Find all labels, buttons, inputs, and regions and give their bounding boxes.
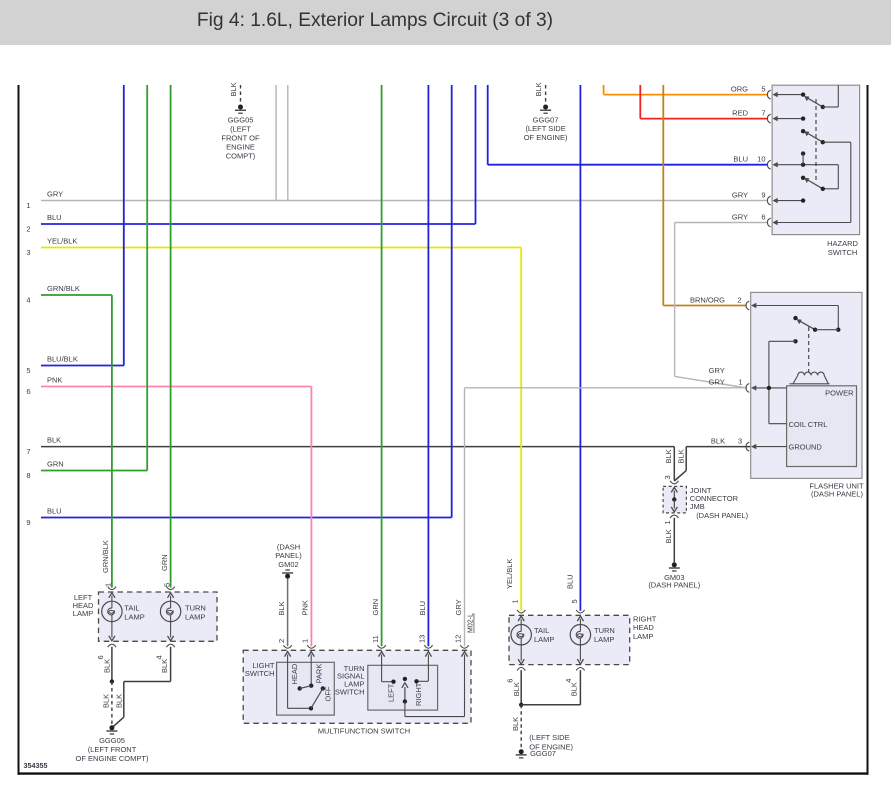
svg-text:3: 3 (738, 437, 742, 446)
svg-text:BLK: BLK (277, 601, 286, 615)
multifunction pin 2 (283, 645, 291, 648)
multifunction pin 13 (424, 645, 432, 648)
svg-text:BLU: BLU (418, 601, 427, 616)
svg-text:PANEL): PANEL) (275, 551, 302, 560)
wire 4 GRN/BLK (41, 294, 112, 296)
svg-text:YEL/BLK: YEL/BLK (505, 559, 514, 589)
svg-text:(LEFT: (LEFT (230, 124, 251, 133)
svg-text:(LEFT SIDE: (LEFT SIDE (525, 124, 565, 133)
wire BLK dashed to GGG07 (520, 705, 522, 749)
light switch arm (300, 686, 312, 689)
svg-text:GRN: GRN (371, 599, 380, 616)
svg-text:GM02: GM02 (278, 560, 298, 569)
svg-text:(DASH PANEL): (DASH PANEL) (648, 581, 700, 590)
svg-text:BLU: BLU (566, 574, 575, 589)
hazard switch arm S2 (801, 129, 805, 133)
svg-text:HAZARD: HAZARD (827, 239, 858, 248)
svg-text:BLU: BLU (47, 213, 62, 222)
svg-text:BLU: BLU (47, 507, 62, 516)
svg-text:9: 9 (26, 518, 30, 527)
svg-text:SWITCH: SWITCH (335, 688, 365, 697)
svg-text:2: 2 (737, 296, 741, 305)
svg-text:RED: RED (732, 109, 748, 118)
wire 3 YEL/BLK vertical to right head lamp tail pin 1 (520, 248, 522, 611)
wire 5 BLU/BLK vertical (123, 85, 125, 366)
wire GRN vertical to left head lamp turn pin 5 (170, 85, 172, 588)
ground GGG07 top (545, 85, 547, 104)
svg-text:12: 12 (454, 635, 463, 643)
flasher pin 3 BLK (746, 442, 749, 451)
svg-text:BLU/BLK: BLU/BLK (47, 355, 78, 364)
left tail lamp pin 1 connector (108, 587, 116, 590)
gray stub wire B (287, 85, 289, 201)
svg-text:POWER: POWER (825, 389, 854, 398)
wire BLK joint connector to GM03 (673, 518, 675, 562)
svg-text:LAMP: LAMP (185, 613, 205, 622)
svg-text:GRY: GRY (732, 213, 748, 222)
svg-text:10: 10 (757, 155, 765, 164)
svg-text:8: 8 (26, 471, 30, 480)
svg-text:GROUND: GROUND (789, 442, 823, 451)
svg-text:SWITCH: SWITCH (828, 248, 858, 257)
svg-text:3: 3 (663, 475, 672, 479)
multifunction switch box (243, 650, 471, 723)
svg-text:7: 7 (761, 109, 765, 118)
svg-text:ORG: ORG (731, 85, 748, 94)
svg-text:BLK: BLK (160, 659, 169, 673)
svg-text:OF ENGINE COMPT): OF ENGINE COMPT) (76, 754, 149, 763)
svg-text:TAIL: TAIL (534, 626, 549, 635)
svg-text:TURN: TURN (594, 626, 615, 635)
left turn lamp bulb (160, 601, 180, 621)
wire GRY from hazard pin 6 to flasher pin 1 (675, 222, 768, 224)
light switch contacts (288, 707, 311, 709)
wire BLU vertical to multifunction pin 13 (427, 85, 429, 646)
svg-text:BLK: BLK (47, 436, 61, 445)
wire 9 BLU vertical (451, 85, 453, 518)
svg-text:RIGHT: RIGHT (414, 682, 423, 706)
svg-text:PNK: PNK (301, 600, 310, 615)
wire 9 BLU (41, 517, 452, 519)
left head lamp box (99, 592, 218, 641)
svg-text:5: 5 (761, 85, 765, 94)
hazard pin 7 contact (777, 118, 803, 120)
right head lamp box (509, 615, 630, 664)
wire 6 PNK vertical to multifunction pin 1 (310, 387, 312, 647)
wire 1 GRY (41, 200, 768, 202)
svg-text:JMB: JMB (690, 502, 705, 511)
flasher switch arm (793, 316, 797, 320)
ground GGG05 top (240, 85, 242, 104)
svg-text:GRY: GRY (709, 377, 725, 386)
flasher link dashed (808, 327, 810, 372)
joint connector pin 1 (673, 500, 675, 509)
wire 6 PNK (41, 386, 311, 388)
svg-text:2: 2 (26, 225, 30, 234)
svg-text:BLK: BLK (511, 717, 520, 731)
turn signal lamp switch box (368, 665, 438, 710)
wire GRY from multifunction pin 12 to flasher pin 1 (465, 387, 748, 389)
multifunction pin 11 (377, 645, 385, 648)
svg-text:LAMP: LAMP (73, 609, 93, 618)
svg-text:GRN: GRN (47, 460, 64, 469)
svg-text:GGG07: GGG07 (530, 749, 556, 758)
wire 3 YEL/BLK (41, 247, 521, 249)
hazard switch arm S1 (806, 97, 823, 107)
svg-text:M02-L: M02-L (468, 613, 475, 633)
svg-text:3: 3 (26, 248, 30, 257)
wire 2 BLU (41, 223, 476, 225)
svg-text:1: 1 (511, 599, 520, 603)
svg-text:HEAD: HEAD (633, 623, 654, 632)
svg-text:GRY: GRY (454, 599, 463, 615)
hazard pin 9 contact (777, 200, 803, 202)
svg-text:(DASH: (DASH (277, 542, 300, 551)
svg-text:GRY: GRY (732, 191, 748, 200)
svg-text:LAMP: LAMP (594, 635, 614, 644)
wire BLK flasher pin 3 segment (686, 446, 751, 448)
svg-text:13: 13 (417, 635, 426, 643)
flasher unit box (751, 292, 862, 478)
flasher coil ctrl contact (793, 339, 797, 343)
svg-text:1: 1 (26, 201, 30, 210)
svg-text:GRN/BLK: GRN/BLK (47, 284, 80, 293)
right tail lamp bulb (511, 625, 531, 645)
right tail lamp pin 1 connector (517, 610, 525, 613)
svg-text:(DASH PANEL): (DASH PANEL) (811, 490, 863, 499)
left tail lamp bulb (102, 601, 122, 621)
wire BLK dashed to GGG05 (111, 682, 113, 725)
svg-text:BLK: BLK (664, 449, 673, 463)
hazard switch box (772, 85, 860, 234)
svg-text:ENGINE: ENGINE (226, 143, 255, 152)
svg-text:GGG07: GGG07 (533, 115, 559, 124)
right turn lamp bulb (570, 625, 590, 645)
left tail lamp pin 6 connector (111, 622, 113, 638)
svg-text:YEL/BLK: YEL/BLK (47, 237, 77, 246)
hazard ganged link dashed (815, 99, 817, 183)
svg-text:6: 6 (26, 387, 30, 396)
multifunction pin 12 wire (460, 645, 468, 648)
left turn lamp pin 5 connector (166, 587, 174, 590)
svg-text:6: 6 (761, 213, 765, 222)
svg-text:GRN/BLK: GRN/BLK (101, 540, 110, 573)
svg-text:BLK: BLK (677, 449, 686, 463)
svg-text:1: 1 (663, 520, 672, 524)
svg-text:5: 5 (26, 366, 30, 375)
svg-text:(DASH PANEL): (DASH PANEL) (696, 511, 748, 520)
left turn lamp pin 4 connector (170, 622, 172, 638)
svg-text:COIL CTRL: COIL CTRL (789, 420, 828, 429)
svg-text:COMPT): COMPT) (226, 152, 256, 161)
wire ORG to hazard pin 5 (603, 85, 605, 95)
joint connector JMB box (663, 486, 686, 513)
wire 4 GRN/BLK vertical to left head lamp (111, 295, 113, 588)
svg-text:LAMP: LAMP (534, 635, 554, 644)
svg-text:LAMP: LAMP (633, 632, 653, 641)
svg-text:SWITCH: SWITCH (245, 669, 275, 678)
svg-text:BLK: BLK (229, 82, 238, 96)
joint connector pin 3 (670, 481, 678, 484)
svg-text:HEAD: HEAD (290, 663, 299, 684)
ground GGG07 bottom (519, 749, 524, 754)
node right lamp ground junction (519, 703, 523, 707)
wire 8 GRN (41, 470, 147, 472)
svg-text:BLK: BLK (103, 659, 112, 673)
flasher coil (790, 372, 830, 384)
ground GM03 (672, 562, 677, 567)
svg-text:BLU: BLU (733, 155, 748, 164)
svg-text:1: 1 (738, 377, 742, 386)
svg-text:4: 4 (26, 296, 30, 305)
right turn lamp pin 4 connector (579, 645, 581, 661)
wire BLU vertical to right head lamp turn pin 5 (579, 85, 581, 611)
hazard pin 5 contact (777, 94, 803, 96)
svg-text:BLK: BLK (534, 82, 543, 96)
svg-text:354355: 354355 (24, 761, 48, 770)
wire BLU hazard pin 10 branch (487, 85, 489, 165)
svg-text:GRY: GRY (709, 366, 725, 375)
header bar (0, 0, 891, 45)
right turn lamp pin 5 connector (576, 610, 584, 613)
turn signal switch arm (403, 677, 407, 681)
hazard pin 10 contact (777, 164, 838, 166)
svg-text:OFF: OFF (324, 686, 333, 701)
svg-text:BLK: BLK (711, 437, 725, 446)
node left lamp ground junction (110, 679, 114, 683)
svg-text:2: 2 (277, 639, 286, 643)
flasher relay inner box (787, 386, 857, 467)
svg-text:OF ENGINE): OF ENGINE) (524, 133, 568, 142)
svg-text:TURN: TURN (185, 604, 206, 613)
svg-text:5: 5 (570, 599, 579, 603)
right tail lamp pin 6 connector (520, 645, 522, 661)
svg-text:TAIL: TAIL (124, 604, 139, 613)
hazard switch arm S3 (801, 176, 805, 180)
wire 5 BLU/BLK (41, 365, 124, 367)
gray stub wire A (275, 85, 277, 201)
svg-text:MULTIFUNCTION SWITCH: MULTIFUNCTION SWITCH (318, 727, 410, 736)
wire BLK GM02 to multifunction pin 2 (287, 579, 289, 647)
svg-text:BLK: BLK (114, 694, 123, 708)
svg-text:GGG05: GGG05 (228, 115, 254, 124)
svg-text:(LEFT FRONT: (LEFT FRONT (88, 745, 137, 754)
svg-text:PNK: PNK (47, 376, 62, 385)
wire GRN vertical to multifunction pin 11 (381, 85, 383, 646)
light switch box (277, 662, 335, 715)
node flasher pin1 junction (767, 386, 771, 390)
svg-text:FRONT OF: FRONT OF (221, 134, 260, 143)
svg-text:GGG05: GGG05 (99, 736, 125, 745)
svg-text:GRY: GRY (47, 190, 63, 199)
svg-text:BLK: BLK (512, 682, 521, 696)
node joint connector junction (672, 497, 676, 501)
wire 2 BLU vertical (475, 85, 477, 224)
svg-text:(LEFT SIDE: (LEFT SIDE (529, 733, 569, 742)
svg-text:7: 7 (26, 447, 30, 456)
wire 7 BLK vertical to joint connector (673, 447, 675, 481)
title (0, 10, 750, 32)
wire 7 BLK (41, 446, 674, 448)
ground GGG05 bottom (109, 725, 114, 730)
svg-text:1: 1 (300, 639, 309, 643)
svg-text:GRN: GRN (160, 554, 169, 571)
svg-text:LAMP: LAMP (124, 613, 144, 622)
svg-text:9: 9 (761, 191, 765, 200)
svg-text:11: 11 (371, 635, 380, 643)
svg-text:BLK: BLK (102, 694, 111, 708)
svg-text:BRN/ORG: BRN/ORG (690, 296, 725, 305)
svg-text:RIGHT: RIGHT (633, 614, 657, 623)
wire BRN/ORG to flasher pin 2 (662, 85, 664, 306)
svg-text:BLK: BLK (664, 529, 673, 543)
wire 8 GRN vertical (146, 85, 148, 471)
wire RED to hazard pin 7 (639, 85, 641, 119)
svg-text:PARK: PARK (315, 664, 324, 684)
svg-text:LEFT: LEFT (387, 683, 396, 702)
svg-text:BLK: BLK (570, 682, 579, 696)
